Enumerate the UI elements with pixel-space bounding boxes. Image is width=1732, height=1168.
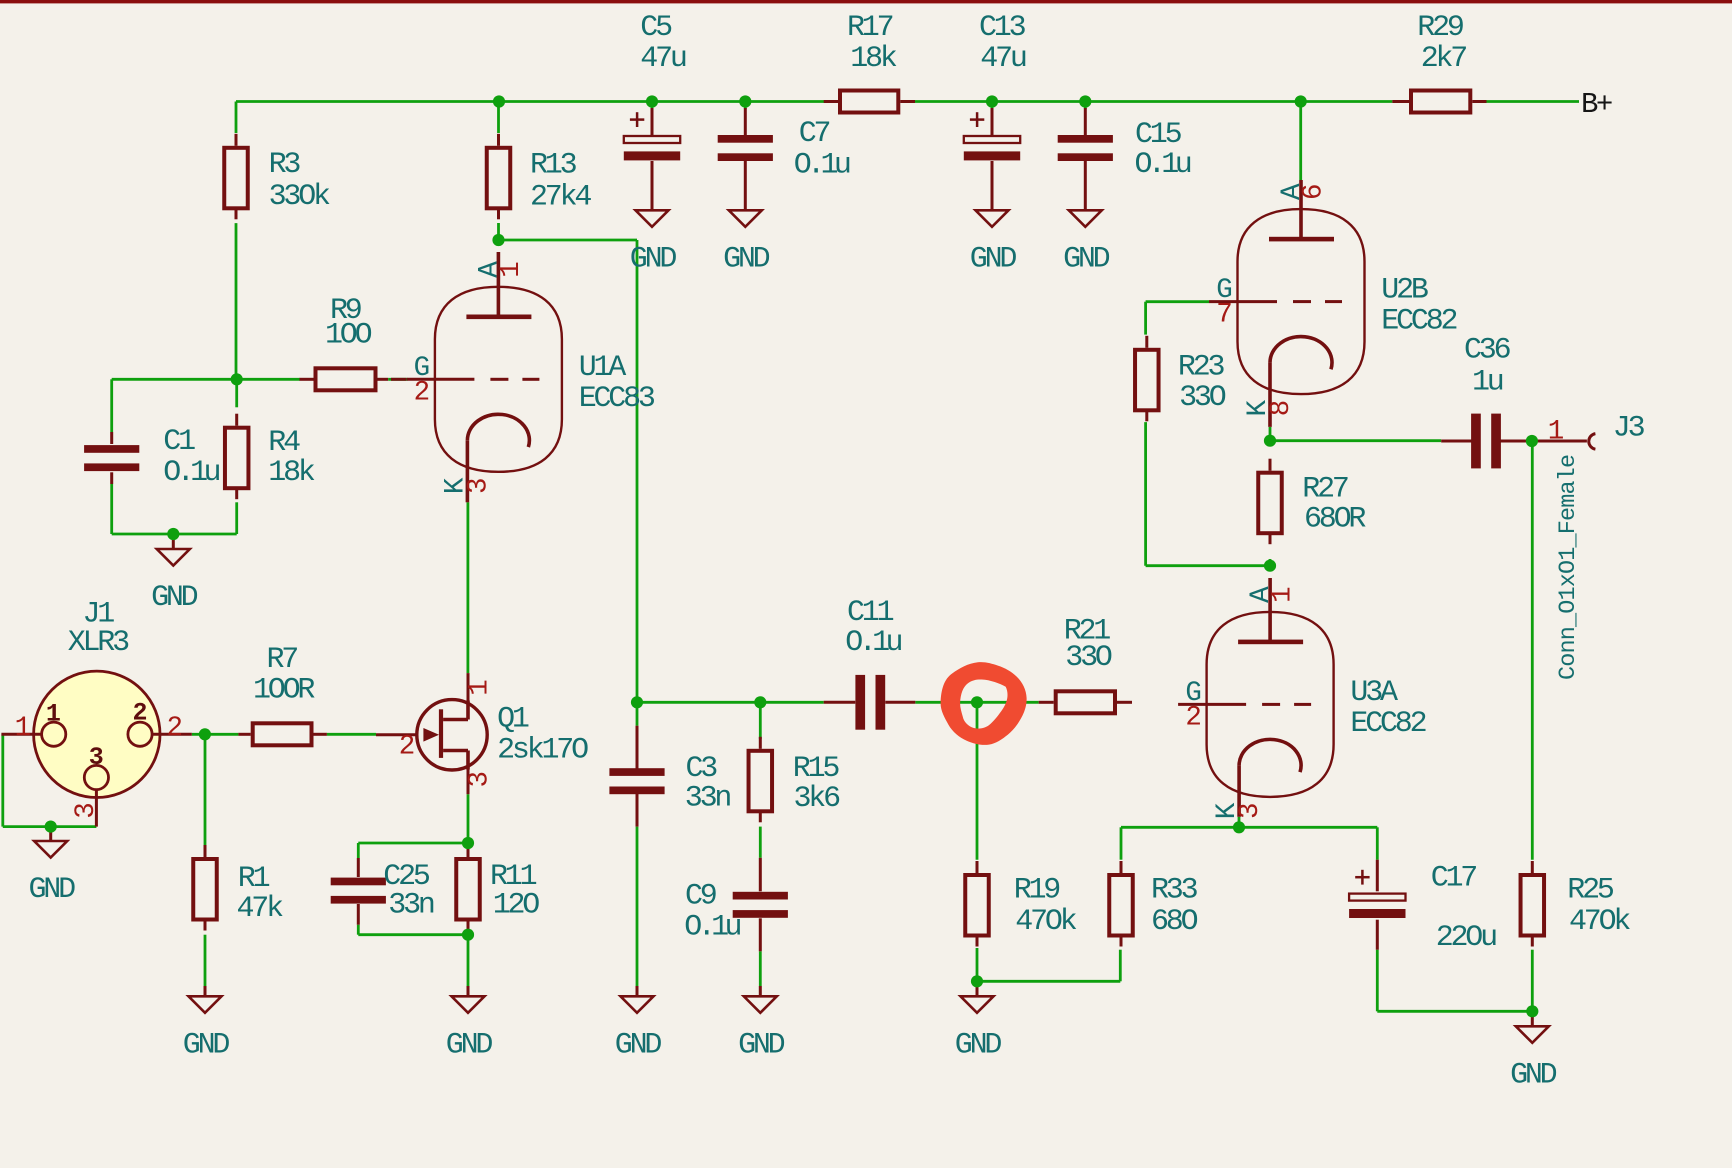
svg-text:ECC83: ECC83 (579, 382, 655, 416)
svg-text:1OOR: 1OOR (253, 673, 315, 707)
svg-text:GND: GND (615, 1028, 662, 1062)
svg-text:1: 1 (46, 700, 61, 729)
svg-text:C17: C17 (1431, 862, 1477, 896)
svg-text:47Ok: 47Ok (1015, 905, 1076, 939)
svg-text:1: 1 (15, 713, 31, 744)
svg-text:GND: GND (738, 1028, 785, 1062)
svg-text:2k7: 2k7 (1421, 42, 1467, 76)
svg-text:GND: GND (446, 1028, 493, 1062)
svg-text:R23: R23 (1178, 350, 1225, 384)
svg-text:3: 3 (71, 804, 102, 819)
svg-text:1: 1 (496, 262, 527, 278)
svg-text:2: 2 (1185, 703, 1200, 734)
svg-text:GND: GND (151, 581, 198, 615)
svg-text:U2B: U2B (1381, 273, 1428, 307)
svg-text:12O: 12O (493, 888, 540, 922)
svg-text:C7: C7 (799, 117, 830, 151)
svg-text:ECC82: ECC82 (1350, 707, 1425, 741)
svg-text:33O: 33O (1179, 381, 1226, 415)
svg-text:1OO: 1OO (325, 318, 372, 352)
svg-text:R1: R1 (238, 862, 270, 896)
svg-text:2: 2 (414, 377, 429, 408)
svg-text:2: 2 (166, 713, 181, 744)
svg-text:1: 1 (1548, 417, 1564, 448)
svg-text:GND: GND (28, 873, 75, 907)
svg-text:3: 3 (89, 743, 104, 772)
svg-text:3: 3 (464, 772, 495, 787)
svg-text:R25: R25 (1567, 873, 1614, 907)
svg-text:33Ok: 33Ok (269, 180, 330, 214)
svg-text:Q1: Q1 (497, 702, 529, 736)
svg-text:GND: GND (955, 1028, 1002, 1062)
svg-text:18k: 18k (268, 456, 315, 490)
svg-text:B+: B+ (1581, 88, 1612, 121)
svg-text:33O: 33O (1065, 641, 1112, 675)
svg-text:O.1u: O.1u (845, 626, 901, 660)
svg-text:GND: GND (723, 242, 770, 276)
svg-text:O.1u: O.1u (684, 911, 740, 945)
svg-text:27k4: 27k4 (530, 180, 591, 214)
svg-text:GND: GND (630, 242, 677, 276)
svg-text:C13: C13 (979, 11, 1026, 45)
svg-text:C15: C15 (1135, 118, 1182, 152)
svg-text:33n: 33n (388, 888, 434, 922)
svg-text:1: 1 (1268, 587, 1299, 603)
svg-text:47k: 47k (237, 892, 284, 926)
svg-text:22Ou: 22Ou (1436, 921, 1496, 955)
svg-text:C5: C5 (640, 11, 672, 45)
svg-text:R7: R7 (267, 643, 298, 677)
svg-text:47u: 47u (640, 42, 686, 76)
svg-text:R17: R17 (847, 11, 893, 45)
svg-text:GND: GND (1510, 1058, 1557, 1092)
svg-text:1: 1 (464, 680, 495, 696)
svg-text:R27: R27 (1302, 473, 1348, 507)
svg-text:3: 3 (464, 479, 495, 494)
svg-text:C36: C36 (1464, 334, 1511, 368)
svg-text:47Ok: 47Ok (1569, 905, 1630, 939)
svg-text:R29: R29 (1417, 11, 1463, 45)
svg-text:ECC82: ECC82 (1381, 304, 1456, 338)
svg-text:18k: 18k (850, 42, 897, 76)
svg-text:2: 2 (132, 698, 147, 727)
svg-text:R3: R3 (269, 148, 301, 182)
svg-text:2: 2 (399, 732, 416, 763)
svg-text:R4: R4 (268, 426, 300, 460)
svg-text:R15: R15 (793, 752, 840, 786)
svg-text:R33: R33 (1151, 873, 1198, 907)
svg-text:68OR: 68OR (1304, 503, 1366, 537)
svg-text:Conn_O1xO1_Female: Conn_O1xO1_Female (1555, 455, 1582, 680)
svg-text:7: 7 (1216, 300, 1231, 331)
svg-text:33n: 33n (685, 781, 731, 815)
svg-text:6: 6 (1299, 185, 1330, 200)
svg-text:R13: R13 (530, 148, 577, 182)
svg-text:47u: 47u (980, 42, 1026, 76)
svg-text:R19: R19 (1014, 873, 1060, 907)
svg-text:GND: GND (183, 1028, 230, 1062)
svg-text:GND: GND (1063, 242, 1110, 276)
svg-text:1u: 1u (1472, 365, 1503, 399)
svg-text:J3: J3 (1613, 411, 1645, 445)
svg-text:U3A: U3A (1350, 676, 1398, 710)
svg-text:C11: C11 (847, 596, 894, 630)
svg-text:3k6: 3k6 (794, 782, 841, 816)
svg-text:3: 3 (1235, 804, 1266, 819)
svg-text:8: 8 (1266, 401, 1297, 416)
svg-text:XLR3: XLR3 (68, 626, 129, 660)
svg-text:O.1u: O.1u (163, 456, 219, 490)
svg-text:C9: C9 (685, 879, 716, 913)
svg-text:68O: 68O (1151, 905, 1198, 939)
svg-text:O.1u: O.1u (794, 149, 850, 183)
svg-text:C1: C1 (163, 425, 195, 459)
svg-text:U1A: U1A (579, 351, 627, 385)
svg-text:O.1u: O.1u (1135, 148, 1191, 182)
svg-text:GND: GND (970, 242, 1017, 276)
svg-text:2sk17O: 2sk17O (497, 733, 588, 767)
